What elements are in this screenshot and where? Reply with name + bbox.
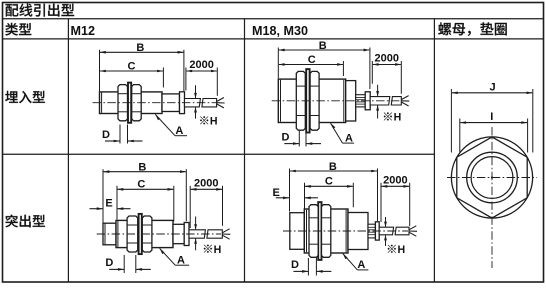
nut dimension I line [460,121,528,124]
M12 flush sensor cable diameter arrows H [195,85,197,98]
M12 flush sensor dimension B extension lines [99,50,101,91]
svg-text:I: I [490,111,493,123]
M12 protruding sensor hex nut 2 [142,216,152,252]
M18/M30 protruding sensor threaded barrel [304,209,348,253]
svg-text:C: C [308,54,316,66]
nut front view: horizontal centre line [447,177,537,179]
M18/M30 protruding sensor dimension C extension line [352,183,354,208]
svg-text:M12: M12 [71,24,96,38]
M18/M30 flush sensor cable diameter arrows H [377,85,379,96]
M12 protruding sensor cable first section [189,230,205,238]
M18/M30 protruding sensor dimension D arrows [293,270,308,272]
M12 protruding sensor cable length extension lines [189,186,191,228]
M12 protruding sensor dimension C extension line [173,186,175,222]
M18/M30 flush sensor toothed washer [306,69,309,132]
M18/M30 protruding sensor label ※H [388,245,396,253]
M18/M30 protruding sensor leader arrow A [343,253,358,270]
nut dimension I extension lines [459,119,461,153]
svg-text:D: D [102,129,110,141]
M12 flush sensor centre line [93,102,217,104]
M18/M30 flush sensor lead wires [401,96,408,100]
M12 protruding sensor dimension C line [117,188,174,191]
M12 protruding sensor lead wires [222,229,229,233]
M12 protruding sensor dimension D extension lines [123,255,125,273]
svg-text:B: B [329,161,337,173]
M18/M30 protruding sensor barrel face inner line [306,210,308,253]
M12 protruding sensor dimension E [90,208,104,210]
svg-text:C: C [325,176,333,188]
M18/M30 protruding sensor dimension E [276,197,290,199]
svg-text:2000: 2000 [189,59,213,71]
M18/M30 protruding sensor hex nut 2 [322,205,331,258]
M18/M30 flush sensor leader arrow A [331,123,343,143]
M18/M30 protruding sensor centre line [283,230,408,232]
M18/M30 protruding sensor dimension C line [305,185,354,188]
M18/M30 protruding sensor dimension B line [290,170,378,173]
M12 protruding sensor dimension line 2000 [190,188,222,191]
nut hexagon outline [457,137,527,218]
M12 protruding sensor centre line [97,233,221,235]
M18/M30 protruding sensor cable length extension lines [380,183,382,222]
M18/M30 protruding sensor dimension D extension lines [307,258,309,276]
M18/M30 flush sensor centre line [272,100,400,102]
svg-text:H: H [398,244,406,256]
M12 flush sensor barrel face inner line [101,93,103,113]
svg-text:2000: 2000 [383,174,407,186]
table column line after type column [67,19,69,282]
svg-text:A: A [357,259,365,271]
M18/M30 flush sensor cable gland neck [356,95,366,107]
M12 protruding sensor cable diameter arrows H [195,217,197,230]
M18/M30 flush sensor cable second section [391,97,401,105]
M12 flush sensor threaded barrel [100,92,163,114]
M12 flush sensor dimension D arrows [105,140,120,142]
M12 protruding sensor dimension B extension lines [102,169,104,222]
M18/M30 protruding sensor barrel end inner line [345,210,347,253]
svg-text:2000: 2000 [194,177,218,189]
M12 flush sensor label ※H [200,116,208,124]
nut centre dot [491,176,493,178]
M12 protruding sensor barrel face inner line [117,221,119,247]
M12 flush sensor cable length extension lines [185,68,187,91]
M18/M30 flush sensor dimension B line [278,49,370,52]
M18/M30 protruding sensor cable bushing flange [375,222,379,240]
M12 flush sensor hex nut 1 [118,85,128,121]
svg-text:A: A [175,125,183,137]
M18/M30 flush sensor dimension line 2000 [372,63,401,66]
M12 flush sensor toothed washer [128,83,131,123]
M18/M30 protruding sensor hex nut 1 [309,205,318,258]
M18/M30 protruding sensor cable gland neck [368,224,375,238]
svg-text:E: E [273,187,280,199]
M18/M30 protruding sensor cable first section [379,227,393,235]
table row line under header [2,18,544,20]
M12 flush sensor cable first section [185,99,201,107]
M18/M30 protruding sensor dimension line 2000 [381,185,410,188]
table row line under column titles [2,38,544,40]
M12 flush sensor dimension D extension lines [119,125,121,144]
M12 protruding sensor leader arrow A [160,248,176,265]
nut dimension J extension lines [450,89,452,153]
M12 protruding sensor cable bushing flange [184,223,189,246]
nut chamfer circle [451,137,532,218]
M18/M30 flush sensor cable bushing flange [365,92,370,110]
nut thread outer circle [467,152,518,203]
svg-text:A: A [345,132,353,144]
nut dimension J line [451,92,532,95]
M12 protruding sensor dimension D arrows [109,268,124,270]
svg-text:C: C [128,60,136,72]
svg-text:H: H [210,116,218,128]
table column line before nut column [433,19,435,282]
M12 flush sensor cable bushing flange [180,92,185,114]
M18/M30 flush sensor dimension C line [278,63,343,66]
svg-text:2000: 2000 [375,53,399,65]
svg-text:H: H [394,112,402,124]
row label 突出型 [5,215,44,228]
M12 protruding sensor threaded barrel [116,220,173,247]
M18/M30 flush sensor dimension B extension lines [277,48,279,79]
svg-text:H: H [214,244,222,256]
M12 flush sensor dimension C line [100,70,164,73]
M12 protruding sensor clamp body [173,224,184,243]
svg-text:D: D [105,257,113,269]
svg-text:E: E [105,198,112,210]
M18/M30 protruding sensor sensing tip [290,213,305,250]
M12 protruding sensor sensing tip [103,223,116,245]
M18/M30 flush sensor hex nut 1 [296,71,305,130]
M12 protruding sensor hex nut 1 [127,216,138,252]
svg-text:D: D [291,259,299,271]
svg-text:J: J [490,82,496,94]
M18/M30 flush sensor dimension D arrows [284,143,299,145]
M18/M30 protruding sensor dimension B extension lines [289,169,291,212]
svg-text:M18, M30: M18, M30 [252,24,308,38]
M18/M30 flush sensor dimension C extension line [342,61,344,76]
M12 flush sensor dimension B line [100,51,184,54]
M18/M30 protruding sensor lead wires [409,226,416,230]
M18/M30 protruding sensor toothed washer [318,202,321,260]
svg-text:B: B [136,42,144,54]
M12 protruding sensor label ※H [204,245,212,253]
row header 类型 [5,23,31,36]
nut front view: vertical centre line [491,127,493,268]
M18/M30 flush sensor hex nut 2 [310,71,319,130]
M18/M30 flush sensor threaded barrel [278,79,345,122]
svg-text:C: C [137,179,145,191]
M12 protruding sensor cable second section [207,230,222,238]
M12 flush sensor leader arrow A [155,114,175,135]
M18/M30 flush sensor barrel end inner line [343,80,345,122]
M12 flush sensor hex nut 2 [132,85,142,121]
M18/M30 flush sensor barrel face inner line [280,80,282,122]
M18/M30 flush sensor cable length extension lines [371,61,373,84]
M18/M30 protruding sensor rear cap [348,213,368,250]
column title 螺母，垫圈 [438,22,506,35]
M12 flush sensor clamp body [162,94,180,112]
M18/M30 flush sensor cable first section [370,97,390,105]
M12 protruding sensor toothed washer [139,214,142,254]
M18/M30 protruding sensor cable diameter arrows H [385,217,387,227]
M12 flush sensor lead wires [217,98,224,102]
M18/M30 flush sensor rear cap [346,81,356,121]
M18/M30 flush sensor dimension D extension lines [298,131,300,147]
table column line after M12 column [244,19,246,282]
M12 flush sensor cable second section [202,99,217,107]
svg-text:B: B [319,40,327,52]
svg-text:B: B [138,162,146,174]
M12 protruding sensor dimension B line [103,170,186,173]
header text 配线引出型 [6,4,75,17]
svg-text:D: D [282,131,290,143]
nut thread inner circle [471,157,513,199]
table row line between flush and protruding rows [2,153,434,155]
M18/M30 flush sensor label ※H [384,112,392,120]
row label 埋入型 [5,91,45,103]
M18/M30 protruding sensor cable second section [395,227,409,235]
svg-text:A: A [177,254,185,266]
M12 flush sensor dimension C extension line [162,68,164,88]
M12 flush sensor dimension line 2000 [186,70,217,73]
